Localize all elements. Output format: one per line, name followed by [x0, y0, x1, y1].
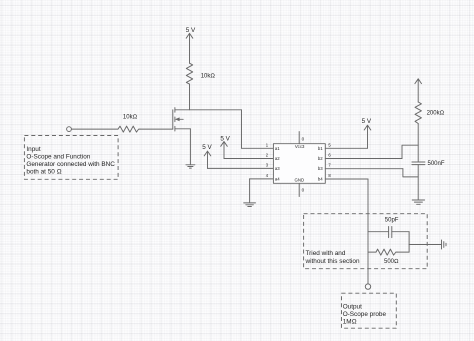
IC U1 bottom pin stub [298, 183, 300, 196]
wire drain feedback down [241, 110, 243, 149]
svg-text:5 V: 5 V [202, 144, 212, 151]
svg-text:Generator connected with BNC: Generator connected with BNC [26, 161, 115, 168]
wire IC pin b2 horizontal [325, 158, 402, 160]
svg-text:500Ω: 500Ω [384, 259, 399, 265]
power source VDD 5V top arrow [186, 33, 193, 63]
svg-text:0: 0 [302, 188, 305, 193]
svg-text:Vcc3: Vcc3 [295, 144, 305, 149]
wire C2 right plate to node [392, 231, 409, 233]
wire R3 to capacitor C1 [417, 124, 419, 163]
wire pin b2 step up [402, 145, 418, 158]
IC U1 bottom pin label 0 [302, 188, 305, 193]
svg-text:b4: b4 [318, 176, 323, 181]
IC U1 pin numbers 5-8 [328, 142, 331, 178]
snubber annotation dashed box [304, 214, 428, 269]
power source arrow above R3 [415, 79, 422, 102]
IC U1 top pin stub [298, 132, 300, 144]
svg-text:a1: a1 [275, 146, 280, 151]
ground G4 sideways [442, 240, 447, 249]
IC U1 Vcc label [295, 144, 305, 149]
resistor R2 10k ohm gate series [118, 126, 140, 132]
svg-text:7: 7 [328, 163, 331, 168]
resistor R2 value label 10kOhm [123, 115, 138, 121]
wire right node to ground G4 [409, 244, 441, 246]
capacitor C1 value label 500nF [428, 161, 445, 167]
power source 5V label at IC pin a2 [220, 136, 230, 143]
wire to IC pin a2 [224, 158, 273, 160]
wire drain node horizontal [175, 109, 242, 111]
svg-text:5 V: 5 V [362, 118, 372, 125]
svg-text:4: 4 [266, 173, 269, 178]
svg-text:b2: b2 [318, 156, 323, 161]
svg-text:O-Scope and Function: O-Scope and Function [26, 154, 90, 161]
input annotation dashed box [24, 136, 118, 180]
wire IC pin a4 horizontal [250, 178, 274, 180]
transistor Q1 body arrow [175, 117, 183, 121]
resistor R1 10k ohm drain pull-up [186, 63, 192, 84]
svg-text:a4: a4 [275, 176, 280, 181]
wire node to resistor R4 [368, 251, 376, 253]
svg-text:Output: Output [343, 303, 362, 310]
wire R2 to Q1 gate [140, 128, 173, 130]
wire IC pin b4 horizontal [325, 178, 368, 180]
wire node to C2 left plate [368, 231, 389, 233]
svg-text:500nF: 500nF [428, 161, 445, 167]
transistor Q1 MOSFET gate bar [172, 110, 174, 129]
resistor R4 500 ohm [376, 249, 397, 255]
svg-text:50pF: 50pF [385, 217, 399, 223]
svg-text:Input: Input [26, 146, 40, 153]
svg-text:Tried with and: Tried with and [306, 250, 346, 257]
power source 5V label at IC pin a3 [202, 144, 212, 151]
output annotation text [343, 303, 387, 325]
output annotation dashed box [342, 293, 397, 328]
wire R1 bottom to drain node [189, 84, 191, 110]
wire IC pin b3 horizontal [325, 168, 403, 170]
wire to IC pin a1 [242, 147, 274, 149]
svg-text:0: 0 [302, 137, 305, 142]
IC U1 GND label [295, 178, 305, 183]
capacitor C2 value label 50pF [385, 217, 399, 223]
wire R4 to right node [397, 251, 409, 253]
svg-text:a3: a3 [275, 166, 280, 171]
svg-text:10kΩ: 10kΩ [123, 115, 138, 121]
svg-text:10kΩ: 10kΩ [201, 74, 216, 80]
IC U1 top pin label 0 [302, 137, 305, 142]
svg-text:O-Scope probe: O-Scope probe [343, 311, 387, 318]
transistor Q1 channel ticks [174, 108, 176, 131]
svg-text:3: 3 [266, 163, 269, 168]
resistor R3 value label 200kOhm [427, 111, 445, 117]
capacitor C1 500nF plates [412, 162, 425, 165]
svg-text:6: 6 [328, 153, 331, 158]
wire IC pin b1 horizontal [325, 147, 367, 149]
terminal input port circle [67, 127, 72, 132]
ground G2 at IC pin a4 [244, 203, 256, 207]
wire Q1 source horizontal [175, 128, 191, 130]
power source VDD 5V top label [186, 27, 196, 34]
svg-text:1: 1 [266, 142, 269, 147]
svg-text:a2: a2 [275, 156, 280, 161]
svg-text:5 V: 5 V [186, 27, 196, 34]
svg-text:b3: b3 [318, 166, 323, 171]
resistor R1 value label 10kOhm [201, 74, 216, 80]
power source 5V arrow at IC pin b1 [364, 125, 371, 148]
svg-text:2: 2 [266, 153, 269, 158]
svg-text:1MΩ: 1MΩ [343, 319, 357, 326]
svg-text:GND: GND [295, 178, 305, 183]
wire input to R2 [71, 128, 118, 130]
wire right node vertical [408, 232, 410, 252]
IC U1 pin names b1-b4 [318, 146, 323, 182]
svg-text:5 V: 5 V [220, 136, 230, 143]
resistor R4 value label 500Ohm [384, 259, 399, 265]
ground G3 below C1 [412, 200, 424, 204]
IC U1 pin numbers 1-4 [266, 142, 269, 178]
wire pin b3 step down [403, 169, 418, 177]
svg-text:8: 8 [328, 173, 331, 178]
svg-text:b1: b1 [318, 146, 323, 151]
terminal output port circle [365, 284, 370, 289]
wire output net vertical [367, 179, 369, 284]
svg-text:without this section: without this section [305, 258, 360, 265]
svg-text:5: 5 [328, 142, 331, 147]
wire IC pin a4 down to ground [249, 179, 251, 203]
ground G1 at Q1 source [186, 165, 195, 168]
wire C1 to ground [417, 165, 419, 200]
wire Q1 source down to ground [189, 129, 191, 165]
IC U1 pin names a1-a4 [275, 146, 280, 182]
capacitor C2 50pF plates [389, 227, 392, 238]
power source 5V arrow at IC pin a2 [221, 142, 228, 159]
resistor R3 200k ohm [415, 102, 421, 124]
input annotation text [26, 146, 115, 176]
power source 5V label at IC pin b1 [362, 118, 372, 125]
svg-text:200kΩ: 200kΩ [427, 111, 445, 117]
power source 5V arrow at IC pin a3 [204, 151, 211, 168]
op-amp U1 IC body [273, 144, 325, 184]
svg-text:both at 50 Ω: both at 50 Ω [26, 169, 61, 176]
wire to IC pin a3 [208, 167, 274, 169]
snubber annotation text [305, 250, 360, 265]
